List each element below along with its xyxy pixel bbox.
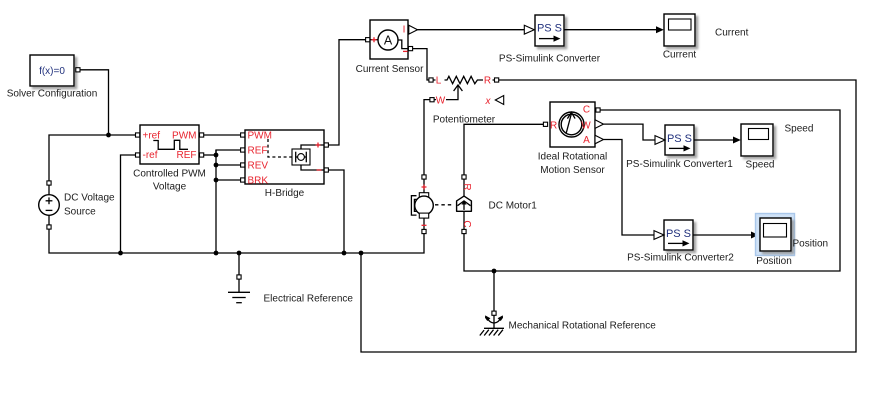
wire -ref to ground bus [121, 155, 136, 253]
H-bridge BRK port [241, 178, 245, 182]
wire solver to node A [80, 70, 108, 135]
motion sensor W output triangle [595, 120, 604, 129]
H-bridge minus port [324, 168, 328, 172]
DC motor R shaft port [462, 175, 466, 179]
junction dot bus x344 [342, 251, 347, 256]
potentiometer R port [495, 78, 499, 82]
junction dot bus ground [237, 251, 242, 256]
svg-text:Motion Sensor: Motion Sensor [540, 165, 605, 176]
svg-text:Position: Position [793, 239, 829, 250]
svg-text:PS S: PS S [666, 228, 691, 240]
svg-text:Current: Current [663, 50, 697, 61]
node B junction dot [214, 153, 219, 158]
controlled PWM +ref port [136, 133, 140, 137]
wire to mechanical reference [493, 271, 495, 311]
svg-text:x: x [485, 96, 492, 107]
wire motor R to motion sensor R [464, 124, 545, 174]
wire H-bridge minus to bus [329, 170, 344, 253]
solver configuration block U1 [30, 55, 74, 86]
potentiometer R2 [433, 75, 494, 106]
unconnected port x [485, 96, 504, 107]
H-bridge block U3 [245, 130, 324, 187]
svg-text:Speed: Speed [746, 160, 775, 171]
svg-text:Current Sensor: Current Sensor [356, 64, 424, 75]
wire converter to current scope [564, 29, 658, 31]
svg-text:Electrical Reference: Electrical Reference [264, 294, 354, 305]
current sensor I output triangle [409, 25, 418, 34]
svg-text:Speed: Speed [785, 124, 814, 135]
svg-text:f(x)=0: f(x)=0 [39, 66, 65, 77]
wire sensor W to converter1 [604, 124, 656, 140]
current sensor minus port [408, 47, 412, 51]
motion sensor A output triangle [595, 135, 604, 144]
current sensor plus port [366, 38, 370, 42]
DC motor minus port [422, 229, 426, 233]
electrical reference port [237, 275, 241, 279]
svg-text:Source: Source [64, 207, 96, 218]
svg-text:PS-Simulink Converter1: PS-Simulink Converter1 [626, 159, 733, 170]
junction dot bus x361 [359, 251, 364, 256]
motion sensor C port [596, 108, 600, 112]
current scope block [664, 14, 695, 46]
converter input triangle [524, 25, 534, 34]
controlled PWM voltage block U2 [140, 125, 199, 164]
controlled PWM PWM out port [200, 133, 204, 137]
wire converter2 to position scope [693, 234, 752, 236]
svg-text:A: A [583, 135, 590, 146]
svg-text:REF: REF [248, 146, 268, 157]
svg-text:W: W [436, 95, 446, 106]
wire converter1 to speed scope [694, 139, 735, 141]
wire node B chain to REF REV BRK and bus [216, 150, 240, 253]
svg-text:-ref: -ref [143, 150, 158, 161]
svg-text:DC Motor1: DC Motor1 [489, 201, 538, 212]
DC voltage source V1 top port [47, 181, 51, 185]
converter2 input triangle [654, 231, 664, 240]
wire motor C to mech loop [464, 110, 840, 271]
arrowhead into current scope [656, 26, 664, 33]
svg-text:DC Voltage: DC Voltage [64, 193, 115, 204]
arrowhead into speed scope [733, 137, 741, 144]
svg-text:H-Bridge: H-Bridge [265, 188, 305, 199]
electrical reference ground symbol [228, 279, 250, 302]
junction dot BRK [214, 178, 219, 183]
svg-text:L: L [436, 76, 442, 87]
junction dot bus x216 [214, 251, 219, 256]
speed scope block [741, 124, 773, 156]
wire potentiometer R to outer loop [361, 80, 856, 352]
svg-text:A: A [384, 34, 393, 48]
svg-text:Controlled PWM: Controlled PWM [133, 169, 206, 180]
DC motor plus port [422, 175, 426, 179]
H-bridge REF port [241, 148, 245, 152]
svg-text:REV: REV [248, 161, 269, 172]
label Ideal Rotational Motion Sensor [538, 152, 608, 177]
junction dot -ref bus [118, 251, 123, 256]
svg-text:PS S: PS S [667, 133, 692, 145]
H-bridge REV port [241, 163, 245, 167]
svg-text:PS S: PS S [537, 23, 562, 35]
svg-text:BRK: BRK [248, 176, 269, 187]
H-bridge PWM port [241, 133, 245, 137]
label DC Voltage Source [64, 193, 115, 218]
svg-text:REF: REF [177, 150, 197, 161]
wire PWM out to H-bridge PWM [204, 134, 241, 136]
DC voltage source V1 bottom port [47, 225, 51, 229]
svg-text:R: R [550, 120, 557, 131]
svg-text:R: R [461, 183, 472, 190]
svg-text:Position: Position [756, 256, 792, 267]
DC motor block U5 [411, 179, 472, 229]
svg-text:C: C [583, 104, 590, 115]
wire node A to +ref and DC source [49, 135, 135, 182]
ideal rotational motion sensor U6 [550, 102, 595, 147]
converter1 input triangle [655, 136, 665, 145]
svg-text:I: I [403, 25, 406, 36]
node A junction dot [106, 133, 111, 138]
solver configuration output port [76, 68, 80, 72]
arrowhead into position scope [751, 232, 759, 239]
svg-text:PS-Simulink Converter: PS-Simulink Converter [499, 54, 601, 65]
controlled PWM REF out port [200, 153, 204, 157]
wire bus to electrical reference [238, 253, 240, 275]
DC voltage source V1 [39, 185, 60, 224]
wire current sensor minus to potentiometer L [413, 49, 429, 80]
potentiometer W port [430, 98, 434, 102]
junction dot REV [214, 163, 219, 168]
PS-simulink converter1 U8 [665, 125, 694, 155]
current sensor block U4 [370, 20, 408, 59]
wire I to PS converter [418, 29, 525, 31]
potentiometer L port [429, 78, 433, 82]
wire DC source minus to ground bus [49, 229, 424, 253]
svg-text:Current: Current [715, 28, 749, 39]
svg-text:Solver Configuration: Solver Configuration [7, 89, 98, 100]
svg-text:Ideal Rotational: Ideal Rotational [538, 152, 608, 163]
svg-text:Voltage: Voltage [153, 181, 187, 192]
mechanical reference port [492, 311, 496, 315]
position scope selection highlight [756, 214, 795, 256]
wire H-bridge plus to current sensor [329, 40, 366, 145]
wire REF out to node B [204, 154, 216, 156]
wire potentiometer W to motor plus [424, 100, 430, 175]
svg-text:R: R [484, 76, 491, 87]
svg-text:PS-Simulink Converter2: PS-Simulink Converter2 [627, 253, 734, 264]
PS-simulink converter2 U9 [664, 220, 693, 250]
controlled PWM -ref port [136, 153, 140, 157]
svg-text:Mechanical Rotational Referenc: Mechanical Rotational Reference [509, 321, 657, 332]
motion sensor R port [543, 122, 547, 126]
junction dot mech reference [492, 269, 497, 274]
position scope block [760, 218, 791, 251]
PS-simulink converter U7 [535, 15, 564, 46]
H-bridge plus port [324, 143, 328, 147]
svg-text:W: W [581, 120, 591, 131]
DC motor C shaft port [462, 229, 466, 233]
wire sensor A to converter2 [604, 140, 655, 236]
mechanical rotational reference symbol [480, 315, 504, 335]
svg-text:C: C [461, 220, 472, 227]
label Controlled PWM Voltage [133, 169, 206, 193]
